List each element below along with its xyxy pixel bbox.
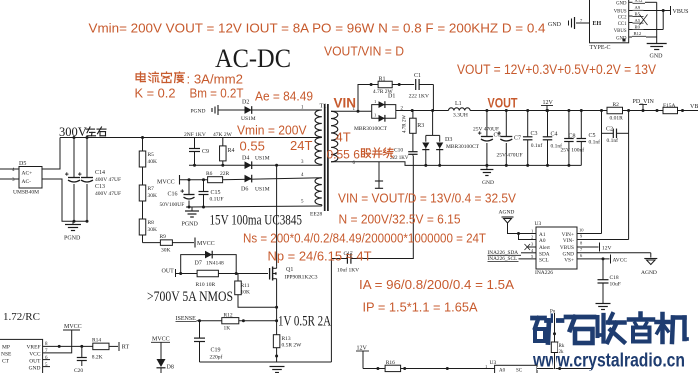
svg-text:MBR30100CT: MBR30100CT (446, 144, 480, 150)
svg-text:OUT: OUT (29, 359, 41, 365)
net 12V bottom flag (356, 346, 369, 369)
svg-text:4: 4 (531, 248, 534, 253)
wire D5 to PGND rail (42, 179, 87, 221)
svg-text:R6: R6 (206, 171, 213, 177)
capacitor C18 10uF (598, 259, 621, 303)
svg-text:TYPE-C: TYPE-C (590, 45, 611, 51)
svg-text:EH: EH (593, 21, 602, 27)
svg-text:3: 3 (531, 242, 534, 247)
svg-text:C1: C1 (414, 73, 421, 79)
wire secondary top (331, 110, 372, 113)
annotation current density (136, 72, 243, 87)
resistor R5 40K (139, 136, 157, 185)
svg-text:GND: GND (548, 22, 562, 28)
wire bottom to watermark area (537, 367, 591, 370)
annotation IA formula (359, 277, 514, 292)
svg-text:6: 6 (580, 253, 583, 258)
svg-text:50V100UF: 50V100UF (160, 202, 185, 208)
svg-text:F15A: F15A (663, 103, 676, 109)
bridge rectifier D5 UMSB40M (12, 161, 42, 196)
svg-text:Vmin = 200V: Vmin = 200V (237, 123, 307, 138)
svg-text:UMSB40M: UMSB40M (13, 190, 39, 196)
svg-text:AC-DC: AC-DC (215, 44, 291, 73)
wire snubber to pin3 (189, 164, 322, 166)
svg-text:1K: 1K (224, 326, 231, 332)
svg-text:300V: 300V (59, 125, 87, 139)
wire clamp to pin1 (221, 109, 322, 111)
svg-text:1: 1 (374, 99, 376, 104)
svg-text:222 1KV: 222 1KV (409, 94, 429, 100)
svg-text:R8: R8 (148, 220, 155, 226)
svg-text:15V 100ma UC3845: 15V 100ma UC3845 (210, 213, 303, 229)
transformer T1 EE28 (301, 103, 356, 218)
svg-text:A5: A5 (635, 18, 641, 23)
svg-text:SCL: SCL (539, 257, 549, 263)
svg-text:MP: MP (2, 345, 10, 351)
svg-text:0.01R: 0.01R (610, 116, 624, 122)
capacitor C14 400V 47UF (65, 138, 121, 222)
wire D5 to 300V rail (42, 138, 60, 170)
net INA226_SCL (488, 256, 537, 262)
svg-text:L1: L1 (455, 101, 462, 107)
svg-text:0.55 6: 0.55 6 (327, 148, 361, 162)
svg-text:AGND: AGND (641, 270, 657, 276)
wire VIN- sense (628, 111, 630, 240)
resistor R2 0.01R shunt (600, 102, 663, 122)
net 12V to VBUS pin (577, 243, 612, 252)
resistor R3 4.7R 2W (403, 111, 425, 134)
svg-text:R4: R4 (228, 148, 235, 154)
svg-text:6: 6 (45, 356, 48, 361)
resistor R9 30K to MVCC (143, 234, 215, 254)
svg-text:GND: GND (616, 1, 627, 6)
svg-text:5: 5 (45, 363, 48, 368)
node rail junctions (73, 136, 225, 223)
svg-text:C18: C18 (610, 275, 619, 281)
wire drain node (275, 164, 278, 267)
net INA226_SDA (488, 250, 537, 256)
svg-text:VBUS: VBUS (560, 245, 574, 251)
svg-text:R7: R7 (148, 186, 155, 192)
svg-text:D4: D4 (242, 156, 249, 162)
svg-text:R2: R2 (613, 102, 620, 108)
capacitor C4 0.1nf (543, 109, 562, 167)
svg-text:VIN = VOUT/D = 13V/0.4 = 32.5V: VIN = VOUT/D = 13V/0.4 = 32.5V (338, 191, 516, 206)
svg-text:N = 200V/32.5V = 6.15: N = 200V/32.5V = 6.15 (339, 212, 461, 227)
svg-text:Bm = 0.2T: Bm = 0.2T (190, 86, 244, 101)
svg-text:Rk: Rk (559, 344, 565, 349)
svg-text:1V 0.5R 2A: 1V 0.5R 2A (278, 314, 331, 330)
ground AGND ina input (499, 210, 537, 240)
svg-text:4: 4 (301, 173, 304, 178)
svg-text:Q1: Q1 (286, 267, 293, 273)
node VOUT rail (470, 110, 607, 112)
svg-text:AC+: AC+ (22, 171, 33, 177)
svg-text:3.3UH: 3.3UH (453, 112, 468, 118)
svg-text:US1M: US1M (241, 116, 256, 122)
net PD_VIN flag (633, 99, 655, 112)
svg-text:GND: GND (29, 366, 41, 372)
wire rectified node (396, 109, 449, 112)
capacitor C5 0.1nf (577, 109, 601, 165)
svg-text:7: 7 (580, 247, 583, 252)
annotation VIN label (334, 96, 357, 111)
resistor R13 0.5R 2W (273, 321, 302, 362)
resistor R1 4.7R 2W snubber (358, 77, 414, 112)
wire pin9 to shunt- (577, 239, 629, 241)
capacitor C7 25V 470UF (497, 109, 523, 167)
op-amp U1 INA226 current monitor (531, 221, 584, 276)
title AC-DC (215, 44, 291, 73)
svg-text:C10: C10 (394, 148, 403, 154)
svg-text:C7: C7 (514, 136, 521, 142)
svg-text:VCC: VCC (29, 352, 41, 358)
net A12 pad (629, 0, 657, 3)
watermark url (532, 350, 685, 372)
svg-text:VBUS: VBUS (614, 29, 627, 34)
net AVCC flag (577, 255, 627, 264)
capacitor C2 0.1nf across shunt (602, 127, 629, 145)
svg-text:10uf 1KV: 10uf 1KV (337, 267, 359, 274)
wire VIN+ sense (601, 111, 603, 234)
svg-text:R12: R12 (224, 313, 233, 319)
net B9 pad VBUS2 (629, 11, 664, 30)
svg-text:R10 10R: R10 10R (196, 282, 216, 288)
svg-text:C8: C8 (569, 133, 576, 139)
node 300V rail (60, 137, 322, 139)
svg-text:2: 2 (531, 235, 533, 240)
svg-text:C4: C4 (551, 131, 558, 137)
annotation VOUT/VIN = D (324, 44, 404, 59)
svg-text:40K: 40K (148, 159, 158, 165)
svg-text:C2: C2 (606, 127, 613, 133)
annotation VOUT sum 13V (457, 62, 656, 78)
net MVCC to VCC pin7 (43, 324, 82, 353)
svg-text:4T: 4T (336, 130, 351, 145)
annotation Vmin 200V (237, 123, 307, 138)
svg-text:MVCC: MVCC (64, 324, 82, 330)
svg-text:R9: R9 (160, 234, 167, 240)
capacitor C20 (74, 346, 87, 373)
diode D7 1N4148 bypass (179, 251, 236, 275)
svg-text:0.1nf: 0.1nf (531, 142, 543, 149)
svg-text:400V 47UF: 400V 47UF (95, 177, 121, 183)
ground primary (270, 367, 285, 373)
capacitor C10 222 1KV (390, 133, 418, 161)
svg-text:0.1nf: 0.1nf (607, 137, 619, 144)
svg-text:30K: 30K (148, 193, 158, 199)
wire bottom 12V rail (363, 367, 495, 370)
svg-text:R16: R16 (386, 360, 395, 366)
ground GND output (480, 165, 494, 186)
net RT flag (119, 342, 129, 351)
svg-text:Ns = 200*0.4/0.2/84.49/200000*: Ns = 200*0.4/0.2/84.49/200000*1000000 = … (243, 231, 486, 246)
connector J1 TYPE-C (580, 0, 629, 51)
annotation 4T (336, 130, 351, 145)
wire AC input stubs (0, 169, 19, 179)
annotation Ae (255, 89, 313, 104)
net A5 pad CC1 (629, 15, 648, 26)
svg-text:10K: 10K (241, 290, 251, 296)
svg-text:0.1UF: 0.1UF (210, 197, 224, 203)
resistor R10 10R (196, 270, 238, 288)
fuse F1 5A (656, 103, 698, 114)
annotation VOUT label (488, 95, 518, 111)
capacitor C16 50V100UF (160, 178, 195, 208)
svg-text:4.7R 2W: 4.7R 2W (373, 89, 394, 95)
svg-text:IPP90R1K2C3: IPP90R1K2C3 (285, 275, 318, 281)
svg-text:25V 100nf: 25V 100nf (561, 147, 585, 154)
annotation IP formula (363, 300, 478, 315)
ground AGND pin7 (577, 253, 657, 276)
net B12 pad GND (629, 2, 657, 43)
crystal symbol secondary gnd ref (375, 162, 383, 189)
diode D3 MBR30100CT dual freewheel (422, 111, 479, 167)
svg-text:9: 9 (580, 234, 583, 239)
resistor R7 30K (139, 185, 157, 219)
svg-text:AGND: AGND (499, 210, 515, 216)
svg-text:220pf: 220pf (210, 354, 223, 361)
svg-text:PGND: PGND (64, 236, 81, 242)
svg-text:25V 470UF: 25V 470UF (497, 153, 523, 159)
wire Alert no-connect (525, 244, 537, 250)
inductor L1 3.3UH (449, 101, 471, 118)
svg-text:C13: C13 (95, 184, 105, 190)
svg-text:U3: U3 (535, 221, 542, 227)
annotation top parameters line (89, 21, 546, 36)
svg-text:EE28: EE28 (310, 212, 322, 218)
svg-text:C16: C16 (168, 192, 178, 198)
svg-text:C5: C5 (589, 133, 596, 139)
ground PGND clamp (191, 105, 222, 115)
wire secondary bottom (331, 162, 581, 166)
label 2NF 1KV 47K 2W (184, 132, 233, 138)
capacitor C19 220pf (194, 321, 223, 362)
svg-text:8.2K: 8.2K (92, 355, 103, 361)
annotation Np formula (268, 249, 372, 264)
svg-text:AVCC: AVCC (613, 258, 628, 264)
transistor Q1 IPP90R1K2C3 (236, 266, 318, 321)
capacitor C13 400V 47UF (78, 138, 121, 222)
label 1V 0.5R 2A (278, 314, 331, 330)
capacitor C9 (189, 138, 209, 166)
label 700V 5A NMOS (147, 289, 233, 305)
wire VREF pin8 (43, 345, 93, 348)
svg-text:VOUT/VIN = D: VOUT/VIN = D (324, 44, 404, 59)
annotation Ns formula (243, 231, 486, 246)
wire primary ground rail (200, 361, 332, 363)
net VBUS flag (663, 6, 688, 15)
svg-text:B9: B9 (635, 24, 641, 29)
svg-text:0.55: 0.55 (240, 139, 265, 154)
annotation K and Bm (135, 86, 244, 101)
resistor R14 8.2K (92, 338, 118, 361)
svg-text:1N4148: 1N4148 (206, 261, 224, 267)
svg-text:: 3A/mm2: : 3A/mm2 (187, 72, 243, 87)
svg-text:NSE: NSE (1, 352, 12, 358)
svg-text:RT: RT (122, 345, 130, 351)
svg-text:INA226: INA226 (535, 270, 553, 276)
diode D4 US1M (242, 156, 270, 170)
svg-text:>700V 5A NMOS: >700V 5A NMOS (147, 289, 233, 305)
net 12V flag (541, 100, 554, 112)
ground AVCC cap (596, 304, 611, 310)
svg-text:VB: VB (690, 104, 698, 110)
svg-text:R13: R13 (282, 336, 291, 342)
ground PGND aux (182, 207, 200, 228)
svg-text:VOUT = 12V+0.3V+0.5V+0.2V = 13: VOUT = 12V+0.3V+0.5V+0.2V = 13V (457, 62, 656, 78)
diode D6 US1M (241, 175, 270, 193)
svg-text:2k: 2k (559, 350, 565, 355)
resistor R6 22R (206, 171, 322, 183)
annotation N formula (339, 212, 461, 227)
svg-text:C9: C9 (202, 149, 209, 155)
svg-text:OUT: OUT (162, 269, 175, 275)
wire OUT pin6 stub (43, 359, 50, 361)
diode D2 US1M (241, 100, 256, 123)
svg-text:B5: B5 (635, 11, 641, 16)
svg-text:R11: R11 (241, 283, 250, 289)
svg-text:30K: 30K (161, 248, 171, 254)
svg-text:IP = 1.5*1.1 = 1.65A: IP = 1.5*1.1 = 1.65A (363, 300, 478, 315)
svg-text:VBUS: VBUS (614, 10, 627, 15)
capacitor C8 25V 100nf (561, 109, 585, 167)
svg-text:AC-: AC- (22, 179, 32, 185)
svg-text:A12: A12 (635, 0, 644, 3)
svg-text:1: 1 (531, 229, 533, 234)
svg-text:GND: GND (650, 54, 664, 60)
svg-text:Alert: Alert (539, 245, 550, 251)
svg-text:Vmin= 200V VOUT = 12V IOUT = 8: Vmin= 200V VOUT = 12V IOUT = 8A PO = 96W… (89, 21, 546, 36)
capacitor C1 222 1KV (409, 73, 434, 111)
svg-text:CT: CT (2, 359, 10, 365)
svg-text:C3: C3 (531, 131, 538, 137)
svg-text:4.7R 2W: 4.7R 2W (403, 115, 408, 133)
svg-text:47K 2W: 47K 2W (213, 132, 233, 138)
diode D8 zener (151, 337, 174, 373)
svg-text:MVCC: MVCC (157, 180, 175, 186)
svg-text:0.5R 2W: 0.5R 2W (282, 342, 303, 348)
label 1.72/RC (3, 311, 40, 323)
svg-text:Ae = 84.49: Ae = 84.49 (255, 89, 313, 104)
op-amp U2 UC3845 PWM controller (0, 339, 48, 373)
ground GND type-c (647, 44, 667, 60)
svg-text:Np = 24/6.15 ≈ 4T: Np = 24/6.15 ≈ 4T (268, 249, 372, 264)
svg-text:C14: C14 (95, 170, 105, 176)
resistor R16 (385, 360, 401, 372)
resistor R8 30K (139, 219, 157, 243)
svg-text:SC: SC (516, 369, 523, 373)
svg-text:A9: A9 (635, 5, 641, 10)
svg-text:R3: R3 (417, 123, 424, 129)
svg-text:C19: C19 (211, 348, 221, 354)
svg-text:400V 47UF: 400V 47UF (95, 191, 121, 197)
svg-text:D3: D3 (445, 137, 452, 143)
net OUT flag (162, 269, 237, 278)
svg-text:2NF 1KV: 2NF 1KV (184, 132, 206, 138)
svg-text:10: 10 (579, 228, 584, 233)
svg-text:D6: D6 (241, 187, 248, 193)
svg-text:C15: C15 (211, 190, 221, 196)
svg-text:VREF: VREF (26, 345, 40, 351)
svg-text:MBR30100CT: MBR30100CT (354, 126, 388, 132)
resistor R12 1K (222, 313, 278, 332)
annotation 0.55 24T (240, 138, 313, 154)
svg-text:R14: R14 (92, 338, 101, 344)
net A9 pad VBUS (629, 5, 665, 12)
watermark logo kuangshi radio (533, 314, 688, 344)
svg-text:R1: R1 (379, 77, 386, 83)
svg-text:MVCC: MVCC (197, 241, 215, 247)
svg-text:IA = 96/0.8/200/0.4 = 1.5A: IA = 96/0.8/200/0.4 = 1.5A (359, 277, 514, 292)
svg-text:5: 5 (301, 200, 304, 205)
svg-text:VOUT: VOUT (488, 95, 518, 111)
label 300V approx (59, 125, 106, 139)
resistor R11 10K (235, 274, 278, 309)
svg-text:8: 8 (580, 241, 583, 246)
svg-text:CC2: CC2 (618, 15, 627, 20)
svg-text:A0: A0 (539, 238, 546, 244)
wire GND pin5 stub (43, 366, 50, 368)
svg-text:1: 1 (485, 364, 487, 369)
svg-text:R5: R5 (148, 152, 155, 158)
svg-text:12V: 12V (602, 246, 612, 252)
net ISENSE (176, 316, 222, 322)
svg-text:PGND: PGND (191, 109, 206, 115)
label 15V 100ma UC3845 (210, 213, 303, 229)
svg-text:C20: C20 (74, 368, 83, 373)
svg-text:30K: 30K (148, 227, 158, 233)
capacitor C15 0.1UF (199, 178, 224, 207)
net B5 pad CC2 (629, 11, 644, 16)
op-amp U5 bottom edge (485, 360, 537, 373)
capacitor C6 25V 470UF (473, 109, 501, 167)
svg-text:3: 3 (301, 160, 304, 165)
svg-text:CC1: CC1 (618, 22, 627, 27)
svg-text:B12: B12 (634, 31, 642, 36)
svg-text:1: 1 (374, 113, 376, 118)
diode D1 MBR30100CT dual (354, 94, 404, 133)
svg-text:A0: A0 (499, 369, 506, 373)
resistor R15 2k over watermark (550, 307, 566, 369)
svg-text:T1: T1 (320, 103, 327, 110)
wire pin10 to shunt+ (577, 233, 602, 235)
svg-text:US1M: US1M (255, 187, 270, 193)
svg-text:GND: GND (482, 180, 494, 186)
svg-text:7: 7 (580, 18, 583, 23)
resistor R4 (220, 138, 235, 166)
ground GND type-c shell (548, 17, 590, 29)
svg-text:PGND: PGND (182, 222, 199, 228)
capacitor C17 10uf 1KV Y-cap (331, 156, 413, 362)
svg-text:10uF: 10uF (610, 282, 621, 288)
svg-text:D8: D8 (167, 365, 174, 371)
svg-text:24T: 24T (290, 138, 312, 153)
svg-text:MVCC: MVCC (152, 337, 170, 343)
annotation VIN formula (338, 191, 516, 206)
svg-text:22R: 22R (220, 171, 230, 177)
svg-text:VIN-: VIN- (563, 238, 574, 244)
svg-text:K = 0.2: K = 0.2 (135, 86, 176, 101)
capacitor C3 0.1nf (523, 109, 542, 167)
svg-text:VIN: VIN (334, 96, 357, 111)
net MVCC flag (157, 175, 208, 186)
svg-text:VBUS: VBUS (673, 9, 689, 15)
annotation 0.55 6 strands (327, 148, 394, 162)
svg-text:5: 5 (531, 254, 534, 259)
svg-text:D5: D5 (19, 161, 26, 167)
svg-text:0.1nf: 0.1nf (589, 138, 601, 145)
